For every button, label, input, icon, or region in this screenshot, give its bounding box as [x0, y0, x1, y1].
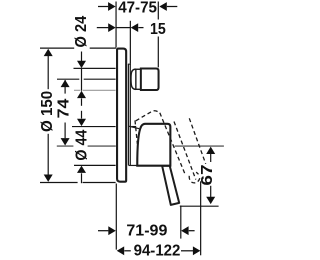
node arrow 15 left: [108, 23, 116, 32]
handle open position dashed lever right edge: [174, 122, 196, 180]
svg-text:Ø 24: Ø 24: [73, 16, 90, 48]
svg-text:Ø 44: Ø 44: [74, 130, 91, 161]
knob collar arc: [131, 69, 136, 89]
wire dim 67 line upper: [210, 154, 212, 162]
wire dim 71-99 left tail: [98, 230, 108, 232]
node arrow 47-75 right: [159, 2, 167, 11]
node arrow O24 bottom: [77, 91, 86, 98]
wire handle axis centerline right: [175, 145, 224, 147]
wire O44 top extension line D: [72, 126, 116, 128]
wire plate top extension line: [40, 47, 74, 49]
wire O44 top arrow tail: [81, 111, 83, 119]
handle open position dashed lever left edge: [160, 113, 185, 175]
node arrow 74 down: [61, 138, 70, 145]
wire dim O150 line upper: [47, 56, 49, 89]
node arrow O24 top: [77, 61, 86, 68]
wire dim 74 line lower: [64, 123, 66, 139]
handle open position dashed outer edge: [189, 118, 205, 164]
cone top edge: [129, 126, 140, 129]
node arrow O44 bottom: [77, 166, 86, 173]
handle body: [137, 124, 170, 166]
wire dim O150 line lower: [47, 134, 49, 175]
handle open position dashed apex: [136, 111, 159, 121]
svg-text:47-75: 47-75: [118, 0, 157, 17]
wire knob top extension line A: [74, 67, 116, 69]
node arrow 47-75 left: [108, 2, 116, 11]
wire dim 15 left tail: [97, 27, 109, 29]
sleeve body: [127, 64, 129, 165]
wire dim 67 line lower: [210, 186, 212, 199]
handle lever arm: [162, 166, 179, 205]
wire 67 bottom extension line: [180, 205, 219, 207]
svg-text:94-122: 94-122: [134, 243, 181, 260]
node arrow 94-122 left: [117, 246, 125, 255]
wire ext line 15 right: [129, 21, 131, 64]
plate escutcheon outline: [117, 49, 126, 182]
handle open position dashed left vertical: [135, 120, 137, 143]
wire dim O24 through line: [81, 68, 83, 91]
node arrow 67 up: [206, 147, 215, 154]
wire ext line bottom left: [115, 184, 117, 250]
wire dim 47-75 left tail: [98, 6, 108, 8]
wire dim O24 line: [81, 52, 83, 62]
wire dim 15 mid: [116, 27, 130, 29]
wire dim 94-122 left tail: [124, 250, 131, 252]
svg-text:74: 74: [56, 98, 73, 118]
node arrow 67 down: [206, 197, 215, 204]
cone bottom edge: [129, 164, 138, 166]
wire O44 bottom extension line E: [74, 164, 116, 166]
wire dim 47-75 right tail: [167, 6, 177, 8]
wire ext line 47-75 left: [115, 2, 117, 48]
node arrow O44 top: [77, 119, 86, 126]
wire ext line lever tip: [180, 206, 182, 239]
node arrow 74 up: [61, 80, 70, 87]
wire plate bottom extension line F: [40, 182, 78, 184]
handle open position dashed tip cap: [189, 176, 200, 183]
handle open position dashed tip cap upper dash: [196, 172, 198, 174]
node arrow 71-99 left: [108, 226, 116, 235]
svg-text:Ø 150: Ø 150: [39, 91, 56, 132]
wire knob axis line B: [57, 78, 79, 80]
svg-text:67: 67: [199, 164, 216, 185]
wire ext line dashed tip: [200, 181, 202, 255]
knob collar cylinder: [136, 69, 141, 89]
node arrow 71-99 right: [181, 226, 189, 235]
wire dim 71-99 right tail: [189, 230, 195, 232]
wire dim 74 line upper: [64, 80, 66, 94]
node arrow 15 right: [131, 23, 139, 32]
node arrow O150 up: [44, 49, 53, 56]
svg-text:15: 15: [150, 21, 166, 38]
wire O44 bottom arrow tail: [81, 173, 83, 183]
wire dim 94-122 right tail: [181, 250, 193, 252]
wire handle axis centerline left: [57, 145, 74, 147]
knob body: [141, 69, 159, 91]
wire dim 15 right tail: [138, 27, 143, 29]
node arrow 94-122 right: [193, 246, 201, 255]
wire ext line 47-75 right: [157, 2, 159, 20]
wire knob bottom extension line C grey: [74, 89, 80, 91]
svg-text:71-99: 71-99: [126, 223, 167, 240]
wire O24 bottom arrow tail: [81, 98, 83, 105]
node arrow O150 down: [44, 175, 53, 182]
